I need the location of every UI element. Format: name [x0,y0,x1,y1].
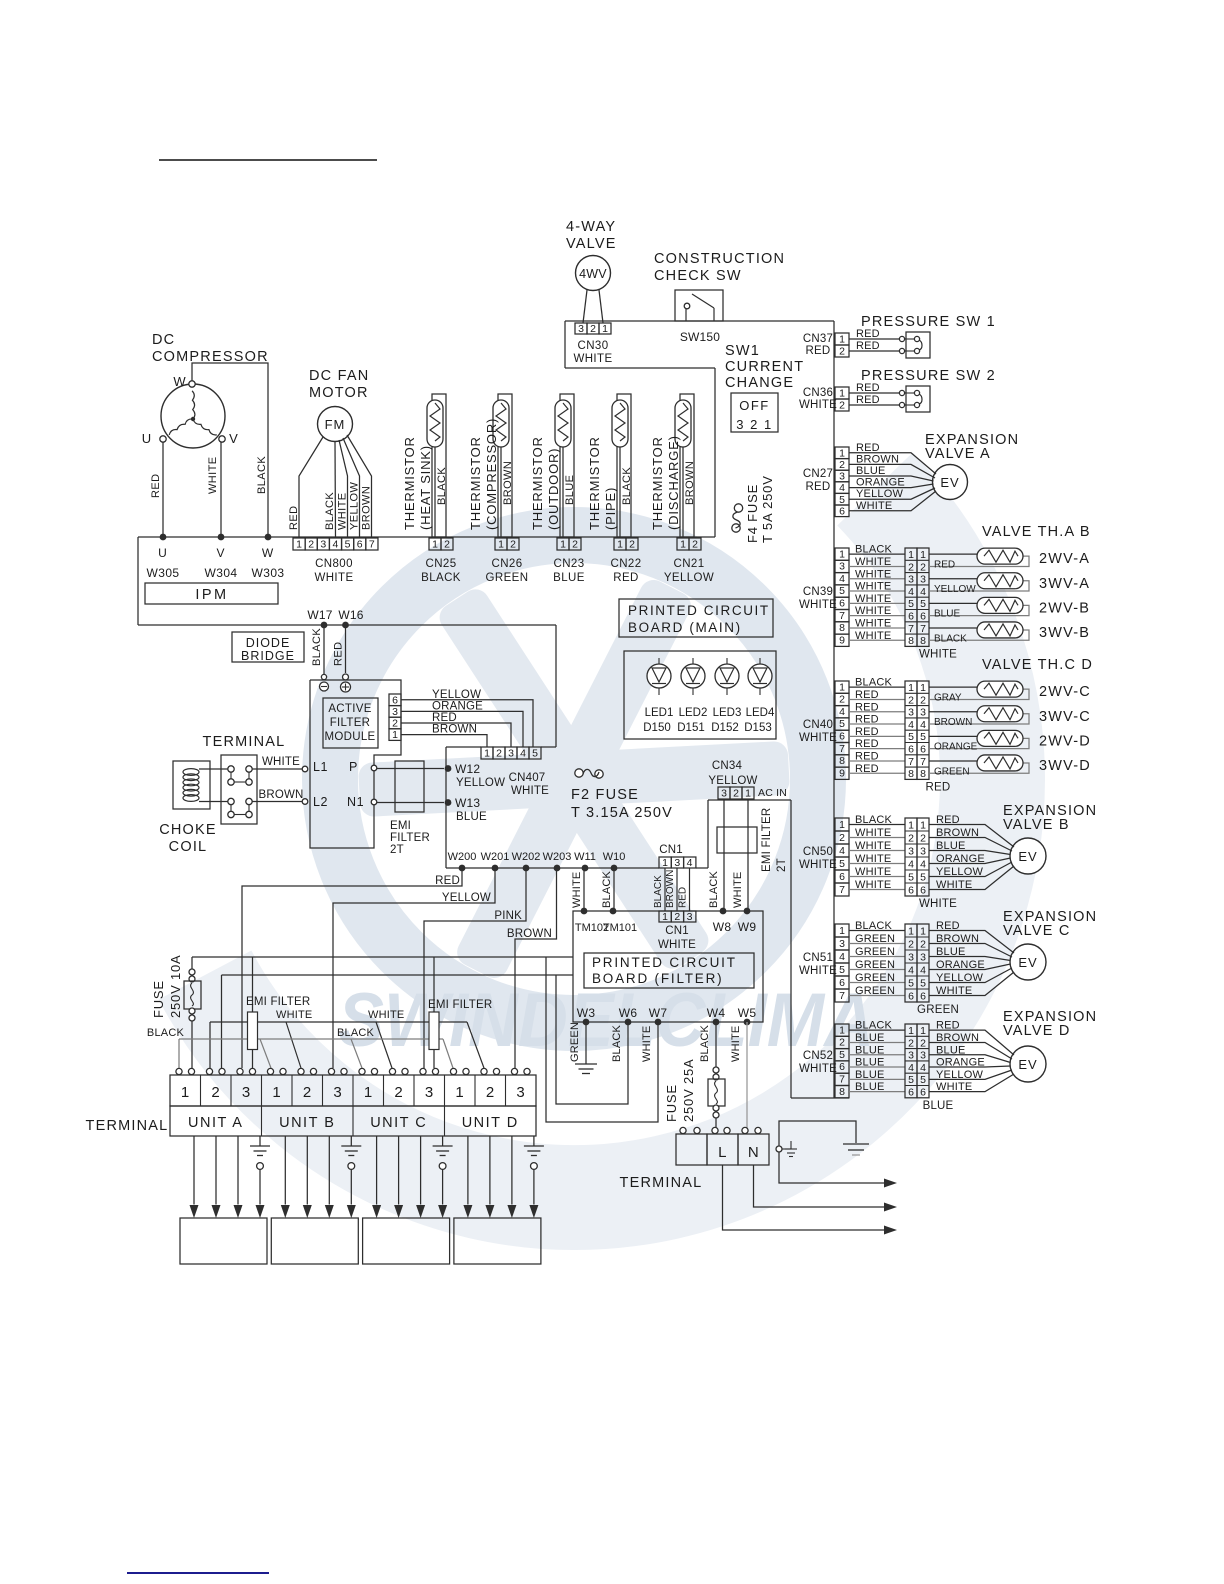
svg-text:5: 5 [839,494,845,506]
svg-text:CN407: CN407 [509,772,546,784]
svg-text:7: 7 [369,539,375,551]
svg-text:WHITE: WHITE [855,556,891,568]
svg-text:1: 1 [839,334,845,346]
svg-text:CN39: CN39 [803,586,833,598]
svg-text:WHITE: WHITE [799,859,837,871]
svg-text:3: 3 [908,574,914,586]
svg-text:EV: EV [1018,1057,1037,1072]
svg-text:RED: RED [856,442,880,454]
svg-text:2: 2 [839,694,845,706]
svg-text:W12: W12 [455,762,480,776]
svg-text:6: 6 [920,743,926,755]
svg-text:L1: L1 [313,760,328,774]
svg-text:1: 1 [560,539,566,551]
svg-text:2: 2 [510,539,516,551]
svg-text:RED: RED [855,750,879,762]
svg-text:4: 4 [908,1062,914,1074]
svg-text:(HEAT SINK): (HEAT SINK) [418,445,433,530]
svg-text:D152: D152 [711,722,739,734]
svg-text:5: 5 [839,964,845,976]
svg-text:WHITE: WHITE [855,605,891,617]
svg-text:SWINDELCLIMA: SWINDELCLIMA [338,978,874,1063]
svg-text:6: 6 [920,884,926,896]
svg-text:RED: RED [613,572,638,584]
svg-text:4: 4 [839,951,845,963]
svg-text:LED4: LED4 [746,707,775,719]
svg-text:5: 5 [532,748,538,760]
svg-text:6: 6 [908,884,914,896]
svg-text:CN52: CN52 [803,1050,833,1062]
svg-text:2: 2 [920,832,926,844]
svg-text:6: 6 [908,990,914,1002]
svg-text:6: 6 [908,743,914,755]
svg-text:AC IN: AC IN [758,787,787,799]
svg-text:7: 7 [908,623,914,635]
svg-text:BLUE: BLUE [553,572,585,584]
svg-text:RED: RED [856,328,880,340]
svg-text:LED2: LED2 [679,707,708,719]
svg-text:WHITE: WHITE [855,853,891,865]
svg-text:WHITE: WHITE [855,827,891,839]
svg-text:BLACK: BLACK [855,544,893,556]
svg-text:BROWN: BROWN [856,453,899,465]
svg-text:RED: RED [856,340,880,352]
svg-text:GREEN: GREEN [917,1004,959,1016]
svg-text:CN800: CN800 [315,558,353,570]
svg-text:VALVE D: VALVE D [1003,1023,1071,1039]
svg-text:W201: W201 [481,851,510,863]
svg-text:RED: RED [926,781,951,793]
svg-text:1: 1 [662,911,668,923]
svg-text:BLUE: BLUE [855,1032,885,1044]
svg-text:3WV-B: 3WV-B [1039,625,1090,641]
svg-text:WHITE: WHITE [799,965,837,977]
svg-text:2: 2 [839,346,845,358]
svg-text:CN51: CN51 [803,952,833,964]
svg-text:BLACK: BLACK [621,467,633,505]
svg-text:W16: W16 [338,608,363,622]
svg-text:W8: W8 [713,920,732,934]
svg-text:WHITE: WHITE [855,630,891,642]
svg-text:D150: D150 [643,722,671,734]
svg-text:LED3: LED3 [713,707,742,719]
svg-text:3 2 1: 3 2 1 [736,417,772,432]
svg-text:BLUE: BLUE [855,1069,885,1081]
svg-text:3: 3 [908,951,914,963]
svg-text:TERMINAL: TERMINAL [620,1175,703,1191]
svg-text:BROWN: BROWN [361,486,373,530]
svg-text:BLUE: BLUE [456,811,487,823]
svg-text:1: 1 [908,682,914,694]
svg-text:2: 2 [908,1037,914,1049]
svg-text:8: 8 [839,755,845,767]
svg-text:UNIT C: UNIT C [370,1115,427,1131]
svg-text:BLACK: BLACK [699,1024,711,1062]
svg-text:VALVE B: VALVE B [1003,817,1070,833]
svg-text:GREEN: GREEN [569,1022,581,1062]
svg-text:2: 2 [908,832,914,844]
svg-text:ORANGE: ORANGE [856,477,905,489]
svg-text:4: 4 [920,858,926,870]
svg-text:BLACK: BLACK [436,467,448,505]
svg-text:8: 8 [920,768,926,780]
svg-text:5: 5 [920,731,926,743]
svg-text:1: 1 [455,1084,464,1101]
svg-text:W3: W3 [577,1006,596,1020]
svg-text:D151: D151 [677,722,705,734]
svg-text:6: 6 [839,871,845,883]
svg-text:W17: W17 [307,608,332,622]
svg-text:YELLOW: YELLOW [349,482,361,530]
svg-text:7: 7 [839,884,845,896]
svg-text:2: 2 [920,561,926,573]
svg-text:BLACK: BLACK [421,572,461,584]
svg-text:250V 25A: 250V 25A [681,1058,696,1122]
svg-text:9: 9 [839,634,845,646]
svg-text:5: 5 [908,871,914,883]
svg-text:RED: RED [934,559,955,570]
svg-text:DC FAN: DC FAN [309,368,369,384]
svg-text:DC: DC [152,332,175,348]
svg-text:2: 2 [444,539,450,551]
svg-text:CN36: CN36 [803,387,833,399]
svg-text:1: 1 [839,447,845,459]
svg-text:2T: 2T [776,858,788,872]
svg-text:2WV-A: 2WV-A [1039,551,1090,567]
svg-text:W7: W7 [649,1006,668,1020]
svg-text:RED: RED [435,875,460,887]
svg-text:4WV: 4WV [579,267,607,281]
svg-text:(COMPRESSOR): (COMPRESSOR) [484,418,499,530]
svg-text:3: 3 [508,748,514,760]
svg-text:1: 1 [920,925,926,937]
svg-text:6: 6 [839,598,845,610]
svg-text:EMI FILTER: EMI FILTER [428,999,492,1011]
svg-text:WHITE: WHITE [799,599,837,611]
svg-text:F2 FUSE: F2 FUSE [571,787,639,803]
svg-text:GREEN: GREEN [855,933,895,945]
svg-text:MODULE: MODULE [324,731,375,743]
svg-text:2: 2 [920,938,926,950]
svg-text:BLUE: BLUE [855,1044,885,1056]
svg-text:3: 3 [687,911,693,923]
svg-text:BLACK: BLACK [337,1027,375,1039]
svg-text:2: 2 [486,1084,495,1101]
svg-text:1: 1 [680,539,686,551]
svg-text:1: 1 [839,388,845,400]
svg-text:W9: W9 [738,920,757,934]
svg-text:UNIT A: UNIT A [188,1115,243,1131]
svg-text:N1: N1 [347,795,364,809]
svg-text:YELLOW: YELLOW [934,584,976,595]
svg-text:2WV-B: 2WV-B [1039,600,1090,616]
svg-text:THERMISTOR: THERMISTOR [650,436,665,530]
svg-text:YELLOW: YELLOW [856,488,903,500]
svg-text:CHANGE: CHANGE [725,375,794,391]
svg-text:GREEN: GREEN [855,946,895,958]
svg-text:5: 5 [908,598,914,610]
svg-text:6: 6 [839,977,845,989]
svg-text:BLUE: BLUE [923,1100,954,1112]
svg-text:BLUE: BLUE [934,609,960,620]
svg-text:V: V [229,431,239,446]
svg-text:RED: RED [855,689,879,701]
svg-text:1: 1 [662,857,668,869]
svg-text:W6: W6 [619,1006,638,1020]
svg-text:BOARD (MAIN): BOARD (MAIN) [628,620,742,635]
svg-text:3: 3 [839,938,845,950]
svg-text:3: 3 [908,1050,914,1062]
svg-text:THERMISTOR: THERMISTOR [530,436,545,530]
svg-text:WHITE: WHITE [511,785,549,797]
svg-text:CHOKE: CHOKE [159,822,217,838]
svg-text:3: 3 [908,707,914,719]
svg-text:1: 1 [908,1025,914,1037]
svg-text:TERMINAL: TERMINAL [203,734,286,750]
svg-text:8: 8 [920,635,926,647]
svg-text:U: U [158,546,168,560]
svg-text:THERMISTOR: THERMISTOR [468,436,483,530]
svg-text:WHITE: WHITE [855,581,891,593]
svg-text:W304: W304 [205,566,238,580]
svg-text:CN21: CN21 [673,558,704,570]
svg-text:YELLOW: YELLOW [442,892,491,904]
svg-text:YELLOW: YELLOW [708,775,757,787]
svg-text:W10: W10 [603,851,626,863]
svg-text:F4 FUSE: F4 FUSE [745,484,760,543]
svg-text:RED: RED [856,382,880,394]
svg-text:RED: RED [288,506,300,530]
svg-text:BLACK: BLACK [611,1024,623,1062]
svg-text:BROWN: BROWN [432,724,477,736]
svg-text:WHITE: WHITE [730,1026,742,1062]
svg-text:1: 1 [920,819,926,831]
svg-text:3: 3 [839,561,845,573]
svg-text:1: 1 [839,681,845,693]
svg-text:1: 1 [908,819,914,831]
svg-text:GRAY: GRAY [934,692,962,703]
svg-text:(OUTDOOR): (OUTDOOR) [546,448,561,530]
svg-text:FM: FM [325,417,346,432]
svg-text:BROWN: BROWN [934,717,972,728]
svg-text:RED: RED [855,701,879,713]
svg-text:5: 5 [908,977,914,989]
svg-text:GREEN: GREEN [934,766,970,777]
svg-text:BLACK: BLACK [934,633,967,644]
svg-text:WHITE: WHITE [276,1009,312,1021]
svg-text:CN1: CN1 [659,844,683,856]
svg-text:5: 5 [920,871,926,883]
svg-text:2: 2 [920,694,926,706]
svg-text:WHITE: WHITE [262,756,300,768]
svg-text:GREEN: GREEN [855,972,895,984]
svg-text:EMI FILTER: EMI FILTER [761,808,773,872]
svg-text:2: 2 [839,459,845,471]
svg-text:8: 8 [839,1086,845,1098]
svg-text:1: 1 [908,549,914,561]
svg-text:7: 7 [908,756,914,768]
svg-text:1: 1 [839,548,845,560]
svg-text:PINK: PINK [494,910,522,922]
svg-text:1: 1 [296,539,302,551]
svg-text:WHITE: WHITE [799,399,837,411]
svg-text:5: 5 [920,1074,926,1086]
svg-text:2: 2 [674,911,680,923]
svg-text:BLUE: BLUE [855,1057,885,1069]
svg-text:1: 1 [392,729,398,741]
svg-text:WHITE: WHITE [641,1026,653,1062]
svg-text:2: 2 [394,1084,403,1101]
svg-text:2: 2 [629,539,635,551]
svg-text:EV: EV [1018,955,1037,970]
svg-text:FUSE: FUSE [151,980,166,1018]
svg-text:7: 7 [839,1074,845,1086]
svg-text:RED: RED [678,887,689,908]
svg-text:4: 4 [920,586,926,598]
svg-text:RED: RED [806,481,831,493]
svg-text:WHITE: WHITE [658,939,696,951]
svg-text:1: 1 [498,539,504,551]
svg-text:TERMINAL: TERMINAL [86,1118,169,1134]
svg-text:W4: W4 [707,1006,726,1020]
svg-text:2: 2 [572,539,578,551]
svg-text:WHITE: WHITE [856,500,892,512]
svg-text:1: 1 [839,819,845,831]
svg-text:W: W [173,374,186,389]
svg-text:BLACK: BLACK [855,814,893,826]
svg-text:6: 6 [839,731,845,743]
svg-text:WHITE: WHITE [799,732,837,744]
svg-text:EV: EV [940,475,959,490]
svg-text:WHITE: WHITE [855,568,891,580]
svg-text:WHITE: WHITE [337,493,349,530]
svg-text:1: 1 [432,539,438,551]
svg-text:BROWN: BROWN [665,870,676,908]
svg-text:N: N [748,1144,759,1161]
svg-text:W11: W11 [574,851,596,863]
svg-text:4: 4 [920,719,926,731]
svg-text:7: 7 [839,743,845,755]
svg-text:U: U [142,431,152,446]
svg-text:VALVE A: VALVE A [925,446,991,462]
svg-text:2: 2 [392,718,398,730]
svg-text:1: 1 [745,788,751,800]
svg-text:5: 5 [345,539,351,551]
svg-text:4-WAY: 4-WAY [566,219,616,235]
svg-text:2: 2 [920,1037,926,1049]
svg-text:4: 4 [908,586,914,598]
svg-text:BLUE: BLUE [564,475,576,505]
svg-text:L: L [718,1144,727,1161]
svg-text:BLACK: BLACK [653,875,664,908]
svg-text:SW150: SW150 [680,330,720,344]
svg-text:PRESSURE SW 1: PRESSURE SW 1 [861,314,996,330]
svg-text:W203: W203 [543,851,572,863]
svg-text:WHITE: WHITE [207,457,219,494]
svg-text:3: 3 [320,539,326,551]
svg-text:5: 5 [920,977,926,989]
svg-text:BOARD (FILTER): BOARD (FILTER) [592,971,723,986]
svg-text:CN22: CN22 [610,558,641,570]
svg-text:3: 3 [839,471,845,483]
svg-text:FUSE: FUSE [664,1084,679,1122]
svg-text:BRIDGE: BRIDGE [241,649,295,663]
svg-text:GREEN: GREEN [855,959,895,971]
svg-text:4: 4 [839,706,845,718]
svg-text:SW1: SW1 [725,343,760,359]
svg-text:ORANGE: ORANGE [934,742,978,753]
svg-text:2: 2 [496,748,502,760]
svg-text:2: 2 [908,938,914,950]
svg-text:BLACK: BLACK [256,456,268,494]
svg-text:7: 7 [839,610,845,622]
svg-text:1: 1 [839,1024,845,1036]
svg-text:WHITE: WHITE [571,872,583,908]
svg-text:5: 5 [839,1049,845,1061]
svg-text:3: 3 [578,323,584,335]
svg-text:1: 1 [839,925,845,937]
svg-text:WHITE: WHITE [314,572,353,584]
svg-text:CN1: CN1 [665,925,689,937]
svg-text:BROWN: BROWN [507,928,552,940]
svg-text:(PIPE): (PIPE) [603,487,618,530]
svg-text:2: 2 [908,694,914,706]
svg-text:W200: W200 [448,851,477,863]
svg-text:WHITE: WHITE [855,879,891,891]
svg-text:3: 3 [674,857,680,869]
svg-text:CN25: CN25 [425,558,456,570]
svg-text:T 5A 250V: T 5A 250V [760,475,775,543]
svg-text:RED: RED [806,345,831,357]
svg-text:GREEN: GREEN [486,572,529,584]
svg-text:3: 3 [425,1084,434,1101]
svg-text:9: 9 [839,767,845,779]
svg-text:3: 3 [516,1084,525,1101]
svg-text:3WV-C: 3WV-C [1039,709,1091,725]
svg-text:MOTOR: MOTOR [309,385,369,401]
svg-text:WHITE: WHITE [368,1009,404,1021]
svg-text:EMI: EMI [390,820,411,832]
svg-text:RED: RED [855,763,879,775]
svg-text:CONSTRUCTION: CONSTRUCTION [654,251,785,267]
svg-text:1: 1 [920,549,926,561]
svg-text:BLACK: BLACK [855,677,893,689]
svg-text:BLACK: BLACK [147,1027,185,1039]
svg-text:T 3.15A 250V: T 3.15A 250V [571,805,673,821]
svg-text:W202: W202 [512,851,541,863]
svg-text:4: 4 [332,539,338,551]
svg-text:WHITE: WHITE [855,840,891,852]
svg-text:3: 3 [242,1084,251,1101]
svg-text:CN30: CN30 [577,340,608,352]
svg-text:1: 1 [617,539,623,551]
svg-text:PRINTED CIRCUIT: PRINTED CIRCUIT [628,603,770,618]
svg-text:WHITE: WHITE [573,353,612,365]
svg-text:EV: EV [1018,849,1037,864]
svg-text:W13: W13 [455,796,480,810]
svg-text:BLACK: BLACK [324,492,336,530]
svg-text:CN37: CN37 [803,333,833,345]
svg-text:RED: RED [150,474,162,498]
svg-text:YELLOW: YELLOW [456,777,505,789]
svg-text:WHITE: WHITE [855,593,891,605]
svg-text:BLACK: BLACK [855,1020,893,1032]
svg-text:4: 4 [908,964,914,976]
svg-text:5: 5 [839,858,845,870]
svg-text:4: 4 [687,857,693,869]
svg-text:3: 3 [908,845,914,857]
svg-text:5: 5 [920,598,926,610]
